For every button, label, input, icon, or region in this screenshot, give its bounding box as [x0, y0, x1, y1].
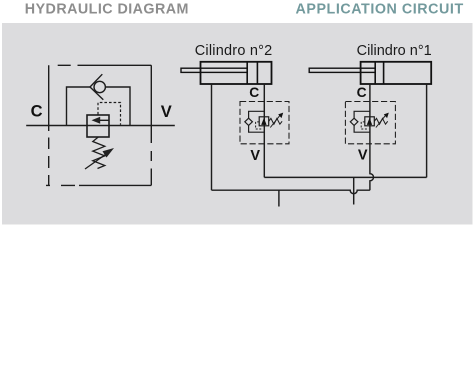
- main line C to V: [26, 125, 175, 127]
- adjustment arrow head: [103, 148, 115, 158]
- valve block 1 spring: [374, 118, 387, 124]
- svg-text:V: V: [358, 147, 368, 163]
- svg-text:C: C: [249, 85, 259, 100]
- svg-text:HYDRAULIC DIAGRAM: HYDRAULIC DIAGRAM: [25, 2, 189, 18]
- stub to valve 2: [353, 177, 355, 204]
- adjustment arrow shaft: [85, 155, 106, 170]
- svg-text:C: C: [357, 85, 367, 100]
- wire cyl2 C-V line to rail A: [263, 84, 265, 177]
- valve block 2 relief arrow: [261, 118, 266, 125]
- wire rail A: [264, 176, 426, 178]
- valve block 1 dashed enclosure: [345, 102, 395, 144]
- valve block 1 relief arrow: [367, 118, 372, 125]
- stub to valve 1: [278, 190, 280, 206]
- cylinder 2 rod: [181, 68, 247, 72]
- wire cyl1 cap port riser: [426, 84, 428, 177]
- relief valve flow arrow head: [92, 117, 101, 124]
- wire cyl2 rod port to line B: [211, 84, 213, 190]
- check valve ball: [94, 81, 105, 92]
- valve block 2 check valve poppet: [245, 118, 253, 125]
- cylinder 1 body: [361, 62, 432, 84]
- cylinder 1 piston: [375, 62, 383, 84]
- valve block 2 relief square: [259, 117, 269, 126]
- valve block 2 adjustment arrow head: [278, 113, 283, 119]
- svg-text:Cilindro n°1: Cilindro n°1: [357, 43, 432, 59]
- valve block 2 check loop wire: [249, 111, 265, 132]
- valve block 2 adjustment arrow shaft: [270, 115, 280, 128]
- wire cyl1 C-V line with jump over rail A: [370, 84, 374, 190]
- valve block 1 adjustment arrow shaft: [376, 115, 386, 128]
- check valve bypass loop wire: [67, 87, 131, 126]
- relief valve body square: [87, 115, 109, 137]
- valve block 1 check loop wire: [354, 111, 370, 132]
- valve block 2 spring: [269, 118, 282, 124]
- valve block 1 pilot dashes: [361, 122, 368, 129]
- valve enclosure dashed box: [46, 65, 151, 185]
- relief valve spring: [93, 137, 105, 169]
- gray panel background: [2, 23, 473, 225]
- svg-text:V: V: [250, 148, 260, 164]
- valve block 1 adjustment arrow head: [384, 113, 389, 119]
- wire line B with jump over stub: [212, 190, 370, 194]
- valve block 2 pilot dashes: [256, 122, 263, 129]
- cylinder 2 piston: [247, 62, 257, 84]
- check valve seat: [90, 74, 103, 100]
- relief valve flow arrow shaft: [100, 119, 109, 121]
- valve block 1 check valve poppet: [350, 118, 358, 125]
- pilot dashed line: [98, 103, 121, 125]
- svg-text:APPLICATION CIRCUIT: APPLICATION CIRCUIT: [296, 2, 464, 18]
- valve block 2 dashed enclosure: [240, 102, 289, 144]
- svg-text:C: C: [31, 103, 43, 121]
- valve block 1 relief square: [365, 117, 375, 126]
- cylinder 1 rod: [309, 68, 375, 72]
- svg-text:V: V: [161, 103, 172, 121]
- svg-text:Cilindro n°2: Cilindro n°2: [195, 43, 273, 59]
- cylinder 2 body: [201, 62, 272, 84]
